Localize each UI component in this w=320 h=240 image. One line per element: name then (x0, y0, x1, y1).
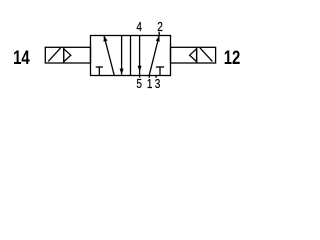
left cell flow path vertical wire (121, 36, 123, 75)
svg-text:2: 2 (157, 20, 163, 34)
left cell blocked port T (96, 67, 103, 76)
right cell blocked port T (156, 67, 164, 76)
svg-text:1: 1 (147, 77, 153, 91)
right cell 1 to 2 arrowhead (156, 36, 160, 42)
pilot actuator 14 divider (63, 47, 65, 63)
port 3 stub wire (155, 75, 157, 78)
left cell vertical arrowhead (120, 69, 124, 75)
valve V1 cell divider (130, 36, 132, 76)
pilot actuator 12 solenoid slash (200, 48, 212, 62)
right cell flow path 4 to 5 vertical wire (139, 36, 141, 78)
pilot actuator 12 pilot triangle (190, 49, 197, 62)
svg-text:14: 14 (13, 48, 30, 69)
pilot actuator 12 box (171, 47, 216, 63)
svg-text:4: 4 (136, 20, 142, 34)
svg-text:5: 5 (136, 77, 142, 91)
left cell diagonal arrowhead (104, 35, 108, 41)
pilot actuator 14 box (45, 47, 90, 63)
right cell flow path 1 to 2 diagonal wire (149, 36, 159, 76)
svg-text:3: 3 (155, 77, 161, 91)
pilot actuator 12 divider (196, 47, 198, 63)
port 2 stub wire (158, 32, 160, 36)
pilot actuator 14 solenoid slash (48, 48, 60, 62)
right cell 4 to 5 arrowhead (138, 66, 142, 72)
left cell flow path diagonal wire (104, 36, 114, 75)
svg-text:12: 12 (224, 48, 241, 69)
pilot actuator 14 pilot triangle (64, 49, 71, 62)
valve V1 body outline (91, 36, 171, 76)
port 1 stub wire (148, 75, 150, 78)
